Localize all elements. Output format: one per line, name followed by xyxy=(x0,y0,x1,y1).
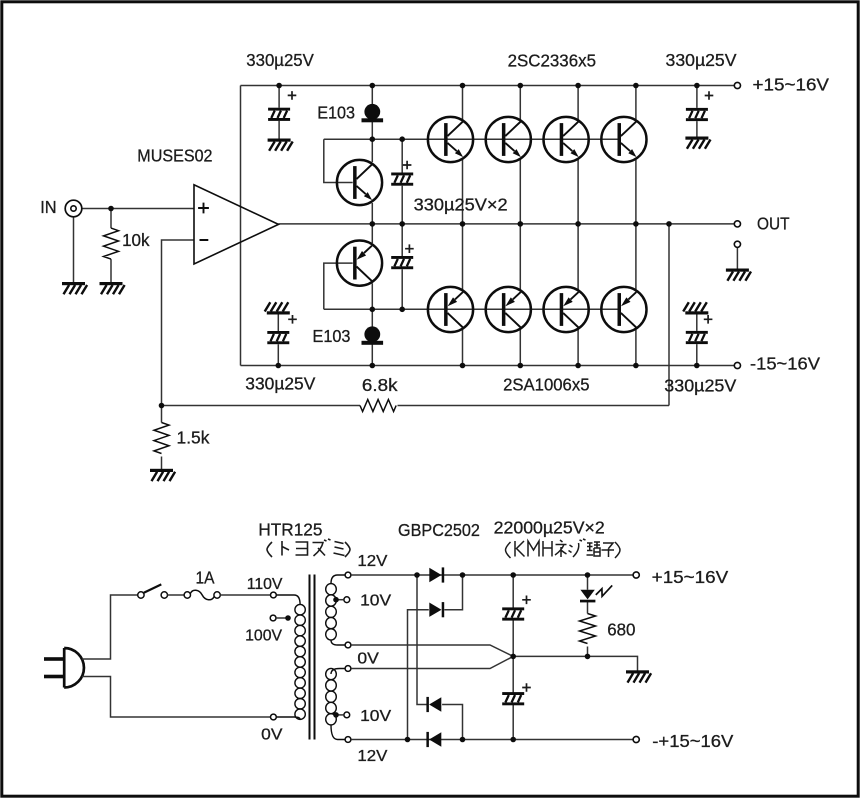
terminal -+15~16V psu xyxy=(633,736,639,742)
svg-text:6.8k: 6.8k xyxy=(362,375,398,395)
svg-text:330µ25V×2: 330µ25V×2 xyxy=(414,195,508,215)
tap 10V lower unused xyxy=(344,712,350,718)
wire Q1 collector/emitter xyxy=(462,86,464,224)
svg-text:330µ25V: 330µ25V xyxy=(245,374,315,394)
wire VA 12V-bottom AC up to D2 xyxy=(408,610,429,740)
label Toyozumi katakana xyxy=(267,539,350,557)
terminal OUT ground return xyxy=(734,241,740,247)
wire Q6 emitter/collector xyxy=(519,224,521,366)
wire Q7 emitter/collector xyxy=(577,224,579,366)
capacitor C6 330u25V bottom right xyxy=(683,302,708,314)
svg-text:0V: 0V xyxy=(357,650,379,667)
wire left top cap leads xyxy=(278,86,280,141)
tap 0V primary xyxy=(271,714,277,720)
IN jack connector xyxy=(65,200,82,217)
transistor Q8 output PNP xyxy=(601,287,646,332)
wire D2 cathode to plus rail xyxy=(444,575,462,610)
wire E103 top leads xyxy=(371,86,373,140)
secondary winding upper xyxy=(326,575,345,645)
transistor Q4 output NPN xyxy=(601,117,646,162)
svg-text:E103: E103 xyxy=(317,102,355,122)
wire left bottom cap leads xyxy=(277,313,279,366)
capacitor C5 330u25V top right xyxy=(686,108,708,121)
resistor R1 10k xyxy=(104,228,119,259)
wire - input to feedback node xyxy=(162,240,195,406)
wire mid cap top leads xyxy=(401,139,403,224)
svg-text:10k: 10k xyxy=(122,230,150,250)
svg-text:1A: 1A xyxy=(196,568,215,588)
capacitor C8 22000u25V lower xyxy=(502,692,524,705)
svg-text:IN: IN xyxy=(40,197,56,217)
terminal +15~16V psu xyxy=(633,572,639,578)
svg-text:110V: 110V xyxy=(247,576,283,593)
svg-text:E103: E103 xyxy=(313,326,351,346)
svg-text:330µ25V: 330µ25V xyxy=(666,50,737,70)
wire plug to switch and 0V primary xyxy=(82,595,270,717)
svg-text:2SC2336x5: 2SC2336x5 xyxy=(508,51,596,71)
svg-text:-15~16V: -15~16V xyxy=(750,353,820,373)
secondary winding lower xyxy=(326,668,345,739)
transformer core xyxy=(310,575,315,740)
svg-text:HTR125: HTR125 xyxy=(258,519,322,539)
wire upper base line xyxy=(324,138,619,140)
svg-text:-+15~16V: -+15~16V xyxy=(652,731,733,751)
wire top driver collector xyxy=(371,139,373,162)
svg-text:OUT: OUT xyxy=(757,213,790,233)
wire top supply rail +15V xyxy=(241,85,735,87)
ground below C1 xyxy=(268,139,293,151)
wire Q2 collector/emitter xyxy=(519,86,521,224)
bridge diode D4 xyxy=(426,732,441,747)
label KMH screw terminal xyxy=(506,539,621,558)
wire 1.5k leads xyxy=(161,406,163,471)
resistor R4 680 xyxy=(580,614,596,644)
wire bottom driver base loop xyxy=(324,263,353,309)
ground below C5 xyxy=(685,137,710,149)
CRD D1 E103 top xyxy=(362,104,384,122)
capacitor C2 330u25V bottom left xyxy=(265,302,290,314)
fuse F1 1A xyxy=(184,590,220,600)
wire Q5 emitter/collector xyxy=(462,224,464,366)
wire 10k leads xyxy=(110,209,112,284)
svg-text:12V: 12V xyxy=(357,748,387,765)
tap 10V upper unused xyxy=(344,597,350,603)
primary winding xyxy=(277,595,306,719)
ground below 10k xyxy=(100,282,125,294)
svg-text:10V: 10V xyxy=(360,593,391,610)
wire top driver base loop xyxy=(324,139,353,182)
wire Q8 emitter/collector xyxy=(635,224,637,366)
ground below IN jack xyxy=(62,282,87,294)
terminal -15~16V xyxy=(734,362,740,368)
svg-text:100V: 100V xyxy=(245,627,282,644)
wire right bottom cap leads xyxy=(696,313,698,366)
tap 100V unused xyxy=(270,615,276,621)
transistor Q10 bottom driver diode-connected xyxy=(337,241,382,286)
AC plug P1 xyxy=(44,648,84,688)
wire mid cap bottom leads xyxy=(401,224,403,309)
svg-text:+15~16V: +15~16V xyxy=(753,74,830,94)
wire Q3 collector/emitter xyxy=(577,86,579,224)
ground at 0V output xyxy=(626,670,651,682)
svg-text:680: 680 xyxy=(607,619,636,639)
wire D3 anode to minus rail xyxy=(442,705,462,740)
switch S1 xyxy=(138,584,168,598)
capacitor C4 330u25V x2 lower xyxy=(391,256,413,269)
terminal OUT xyxy=(734,221,740,227)
svg-text:10V: 10V xyxy=(360,708,391,725)
CRD D2 E103 bottom xyxy=(362,326,384,344)
terminal +15~16V xyxy=(734,82,740,88)
transistor Q1 output NPN xyxy=(428,117,473,162)
wire bottom driver collector xyxy=(371,283,373,309)
wire top driver emitter xyxy=(371,203,373,224)
wire bottom driver emitter xyxy=(371,224,373,243)
wire 0V line to ground xyxy=(513,656,637,671)
wire Q4 collector/emitter xyxy=(635,86,637,224)
wire switch to fuse xyxy=(168,594,185,596)
bridge diode D3 xyxy=(426,697,441,712)
tap 0V upper secondary xyxy=(345,642,351,648)
junction dots psu xyxy=(414,572,420,578)
svg-text:MUSES02: MUSES02 xyxy=(137,146,212,166)
wire VB 12V-top AC down to D3 xyxy=(417,575,428,705)
wire IN jack sleeve to ground xyxy=(73,217,75,284)
transistor Q3 output NPN xyxy=(544,117,589,162)
svg-text:12V: 12V xyxy=(357,553,387,570)
ground below 1.5k xyxy=(150,469,175,481)
wire IN to op-amp + input xyxy=(82,208,194,210)
tap 110V xyxy=(271,592,277,598)
wire output mid rail xyxy=(279,223,735,225)
wire 12V upper AC line to D1 and + rail xyxy=(351,574,633,576)
ground below OUT return xyxy=(726,269,751,281)
svg-text:GBPC2502: GBPC2502 xyxy=(398,520,480,540)
wire fuse to 110V tap xyxy=(220,594,270,596)
wire lower base line xyxy=(324,308,619,310)
resistor R3 1.5k xyxy=(154,423,169,454)
wire 12V lower AC line to D4 and - rail xyxy=(351,739,633,741)
svg-text:330µ25V: 330µ25V xyxy=(664,376,736,396)
svg-text:+15~16V: +15~16V xyxy=(652,567,729,587)
bridge rectifier GBPC2502 D1 xyxy=(429,567,444,582)
wire right top cap leads xyxy=(696,86,698,139)
transistor Q2 output NPN xyxy=(486,117,531,162)
wire capacitor string vertical xyxy=(512,575,514,740)
wire left rail from top to bottom xyxy=(240,86,242,366)
svg-text:330µ25V: 330µ25V xyxy=(246,50,314,70)
wire 0V wedge join xyxy=(351,645,513,669)
capacitor C3 330u25V x2 upper xyxy=(391,173,413,186)
transistor Q7 output PNP xyxy=(544,287,589,332)
svg-text:1.5k: 1.5k xyxy=(177,428,210,448)
wire feedback line with 6.8k xyxy=(162,224,670,406)
transistor Q5 output PNP xyxy=(428,287,473,332)
op-amp U1 MUSES02 xyxy=(194,185,279,264)
tap 0V lower secondary xyxy=(345,666,351,672)
tap 12V upper xyxy=(345,572,351,578)
svg-text:2SA1006x5: 2SA1006x5 xyxy=(503,375,589,395)
wire E103 bottom leads xyxy=(371,309,373,365)
tap 12V lower xyxy=(345,737,351,743)
resistor R2 6.8k feedback xyxy=(360,400,396,412)
bridge diode D2 xyxy=(429,602,444,617)
svg-text:0V: 0V xyxy=(261,727,283,744)
svg-text:22000µ25V×2: 22000µ25V×2 xyxy=(494,517,605,537)
LED D5 pilot lamp xyxy=(580,585,612,602)
transistor Q6 output PNP xyxy=(486,287,531,332)
junction dots amp xyxy=(108,206,114,212)
wire bottom supply rail -15V xyxy=(241,365,735,367)
capacitor C1 330u25V top left xyxy=(268,108,290,121)
transistor Q9 top driver diode-connected xyxy=(337,160,382,205)
capacitor C7 22000u25V upper xyxy=(502,607,524,620)
wire OUT ground terminal lead xyxy=(736,247,738,270)
wire LED branch xyxy=(587,575,589,656)
